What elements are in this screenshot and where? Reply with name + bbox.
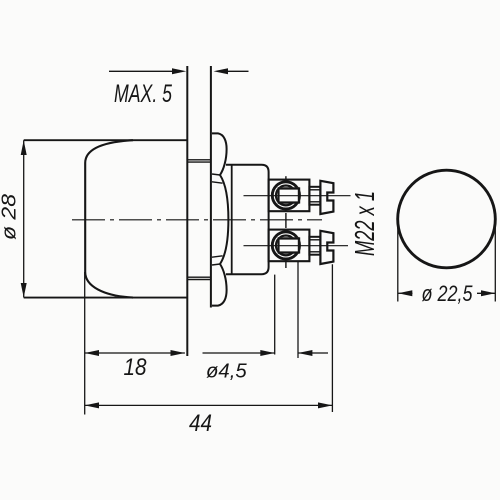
svg-text:MAX. 5: MAX. 5 <box>114 80 172 108</box>
terminal inner ring upper <box>276 186 296 206</box>
terminal inner ring lower <box>276 236 296 256</box>
dimension line MAX.5 <box>109 70 249 72</box>
svg-text:18: 18 <box>124 354 148 381</box>
dimension leader ø4,5 left <box>203 352 275 354</box>
nut middle facet arc <box>220 175 228 264</box>
extension line circle left <box>397 221 399 302</box>
extension line cap left <box>84 272 86 415</box>
terminal block lower <box>269 230 310 262</box>
front view circle <box>398 170 496 268</box>
screw shank upper <box>309 187 320 205</box>
svg-text:44: 44 <box>189 410 212 437</box>
extension line screw head right <box>331 264 333 412</box>
arrowhead 44 right <box>318 402 332 408</box>
cap top edge with extension line <box>24 139 188 141</box>
nut facet edge lines top <box>212 174 220 175</box>
extension line wire hole right <box>297 261 299 358</box>
screw head upper with slot <box>320 181 333 214</box>
panel front line <box>186 66 188 356</box>
dimension ø22,5 left arrow <box>398 292 413 294</box>
dimension ø22,5 right arrow <box>477 292 495 294</box>
switch body outline <box>226 165 269 274</box>
svg-text:ø 22,5: ø 22,5 <box>422 281 474 306</box>
arrowhead 18 left <box>85 350 99 356</box>
arrowhead MAX.5 right <box>214 68 229 74</box>
arrowhead 44 left <box>85 402 99 408</box>
panel back line <box>210 66 212 308</box>
wire hole vertical ticks <box>285 176 287 181</box>
centerline main view <box>72 219 322 221</box>
extension line wire hole left <box>274 275 276 355</box>
svg-text:ø4,5: ø4,5 <box>206 360 247 383</box>
button cap outline <box>85 140 133 297</box>
dimension line 18 <box>85 352 185 354</box>
screw head lower with slot <box>320 231 333 264</box>
wire hole square lower <box>278 237 300 253</box>
panel hole edge bottom <box>187 276 211 278</box>
extension line circle right <box>494 221 496 302</box>
nut bottom chamfer arc <box>212 264 227 306</box>
svg-text:M22 x 1: M22 x 1 <box>349 191 380 256</box>
body front face line <box>231 165 233 274</box>
terminal center line upper <box>244 195 351 197</box>
dimension line 44 <box>85 404 333 406</box>
nut facet edge lines bottom <box>212 264 220 265</box>
terminal outer ring lower <box>272 232 299 259</box>
svg-text:ø 28: ø 28 <box>0 194 21 240</box>
wire hole square upper <box>278 187 300 203</box>
terminal block upper <box>269 180 310 212</box>
arrowhead 18 right <box>171 350 185 356</box>
terminal outer ring upper <box>272 182 299 209</box>
arrowhead ø28 bottom <box>21 283 27 298</box>
terminal center line lower <box>244 245 349 247</box>
arrowhead MAX.5 left <box>172 68 186 74</box>
dimension line ø28 vertical <box>23 140 25 297</box>
nut top chamfer arc <box>212 133 227 175</box>
panel hole edge top <box>187 159 211 161</box>
cap bottom edge with extension line <box>24 297 188 299</box>
dimension leader ø4,5 right <box>298 352 328 354</box>
arrowhead ø28 top <box>21 140 27 155</box>
screw shank lower <box>309 237 320 255</box>
